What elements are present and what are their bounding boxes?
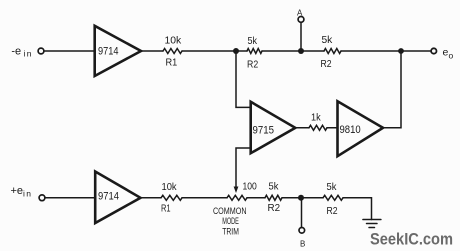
svg-text:in: in <box>24 49 33 59</box>
svg-text:5k: 5k <box>269 181 280 193</box>
node -e_in input terminal <box>11 46 44 59</box>
svg-text:in: in <box>23 189 32 199</box>
svg-text:10k: 10k <box>165 35 182 47</box>
wiper arrowhead <box>234 187 239 194</box>
svg-text:-e: -e <box>11 46 21 58</box>
node B terminal <box>299 198 305 249</box>
node A terminal <box>297 9 304 49</box>
svg-text:R2: R2 <box>247 59 258 71</box>
wire 9715 lower input down to trim wiper <box>236 148 250 187</box>
resistor R2 5k (top-left) <box>247 35 262 71</box>
wire R6 to ground <box>343 198 372 220</box>
resistor R1 10k (top) <box>163 35 182 69</box>
svg-text:A: A <box>297 9 303 18</box>
op-amp U4 9714 (bottom) <box>95 172 140 224</box>
svg-text:+e: +e <box>11 185 24 197</box>
junction dot (node B on bottom rail) <box>298 195 304 201</box>
op-amp U3 9810 <box>338 101 384 156</box>
wire top junction down to 9715 upper input <box>236 51 250 107</box>
wire node B to R6 <box>301 197 323 199</box>
svg-text:5k: 5k <box>248 35 258 47</box>
resistor R4 10k (bottom) <box>161 181 182 215</box>
resistor R5 5k (bottom-left) <box>265 181 282 215</box>
svg-text:9715: 9715 <box>253 125 275 137</box>
wire R2 to node A junction <box>262 50 301 52</box>
junction dot (node A on top rail) <box>298 48 304 54</box>
wire from -e_in to U1 input <box>44 50 93 52</box>
svg-text:R1: R1 <box>161 203 171 215</box>
wire 9810 output up to output node <box>383 51 401 128</box>
svg-text:o: o <box>449 50 454 60</box>
svg-text:9714: 9714 <box>98 191 119 203</box>
node e_o output terminal <box>401 47 454 61</box>
label common mode trim <box>213 206 247 237</box>
svg-text:9810: 9810 <box>340 124 361 136</box>
wire from +e_in to U4 input <box>45 197 94 199</box>
wire node A to R2 <box>301 50 324 52</box>
svg-text:9714: 9714 <box>98 46 119 58</box>
svg-text:1k: 1k <box>311 112 321 124</box>
node +e_in input terminal <box>11 185 45 201</box>
svg-text:SeekIC.com: SeekIC.com <box>370 231 453 249</box>
svg-text:B: B <box>300 240 305 249</box>
wire U4 output to R4 <box>141 197 162 199</box>
svg-text:R2: R2 <box>268 202 281 214</box>
svg-text:R2: R2 <box>321 58 332 70</box>
svg-text:5k: 5k <box>322 34 334 46</box>
junction dot (output node) <box>398 48 404 54</box>
op-amp U1 9714 (top) <box>95 26 141 76</box>
svg-text:R2: R2 <box>327 205 338 217</box>
wire R1 to junction <box>182 50 236 52</box>
potentiometer 100 common mode trim <box>227 181 257 201</box>
wire junction to R2 <box>236 50 247 52</box>
svg-text:R1: R1 <box>166 57 178 69</box>
wire U1 output to R1 <box>141 50 163 52</box>
resistor R6 5k (bottom-right) <box>323 181 343 217</box>
wire R3 to 9810 input <box>327 127 337 129</box>
wire pot to R5 <box>247 197 265 199</box>
op-amp U2 9715 <box>251 102 296 153</box>
svg-text:100: 100 <box>243 181 257 193</box>
wire R5 to node B junction <box>282 197 301 199</box>
svg-text:TRIM: TRIM <box>222 226 239 237</box>
wire R2 to output junction <box>341 50 401 52</box>
junction dot (top rail to 9715 upper input) <box>233 48 239 54</box>
wire R4 to trim pot <box>182 197 227 199</box>
resistor R3 1k <box>309 112 327 131</box>
svg-text:10k: 10k <box>162 181 178 193</box>
resistor R2 5k (top-right) <box>321 34 342 70</box>
ground <box>363 220 381 228</box>
svg-text:5k: 5k <box>327 181 338 193</box>
wire 9715 output to R3 <box>295 127 309 129</box>
